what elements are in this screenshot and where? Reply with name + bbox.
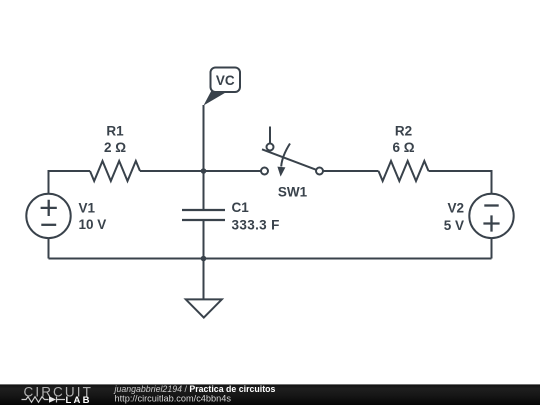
wire V1 top to R1 <box>49 171 91 194</box>
ground <box>186 299 222 317</box>
svg-text:http://circuitlab.com/c4bbn4s: http://circuitlab.com/c4bbn4s <box>115 394 232 404</box>
footer bar <box>0 384 540 405</box>
svg-text:V2: V2 <box>447 201 464 216</box>
svg-text:V1: V1 <box>79 201 96 216</box>
svg-text:R2: R2 <box>395 124 412 139</box>
wire R2 to V2 top <box>429 171 492 194</box>
svg-text:333.3 F: 333.3 F <box>232 218 280 233</box>
wire V1 bottom to rail <box>48 238 50 259</box>
wire C1 to ground <box>203 220 205 299</box>
svg-text:SW1: SW1 <box>278 185 308 200</box>
resistor R2 <box>379 161 429 181</box>
wire R1 to SW1 left terminal <box>140 170 261 172</box>
svg-text:C1: C1 <box>232 200 250 215</box>
svg-text:6 Ω: 6 Ω <box>392 140 414 155</box>
node junction ground rail <box>201 256 207 262</box>
resistor R1 <box>90 161 140 181</box>
capacitor C1 <box>182 200 280 232</box>
switch SW1 <box>261 127 323 200</box>
svg-text:juangabbriel2194 / Practica de: juangabbriel2194 / Practica de circuitos <box>114 384 276 394</box>
resistor R2 labels <box>392 124 414 156</box>
voltage source V2 <box>444 194 514 238</box>
footer logo squiggle <box>22 397 66 403</box>
svg-text:LAB: LAB <box>66 395 92 405</box>
probe VC <box>204 68 241 106</box>
svg-text:10 V: 10 V <box>79 217 107 232</box>
svg-text:R1: R1 <box>106 124 124 139</box>
wire center vertical probe to C1 <box>203 105 205 210</box>
resistor R1 labels <box>104 124 126 156</box>
svg-text:VC: VC <box>216 73 235 88</box>
svg-text:5 V: 5 V <box>444 218 464 233</box>
footer logo diode triangle <box>49 396 56 402</box>
node junction C1 top <box>201 168 207 174</box>
wire SW1 right to R2 <box>323 170 379 172</box>
voltage source V1 <box>26 194 106 238</box>
svg-text:2 Ω: 2 Ω <box>104 140 126 155</box>
wire V2 bottom to rail <box>491 238 493 259</box>
wire bottom rail <box>49 258 492 260</box>
